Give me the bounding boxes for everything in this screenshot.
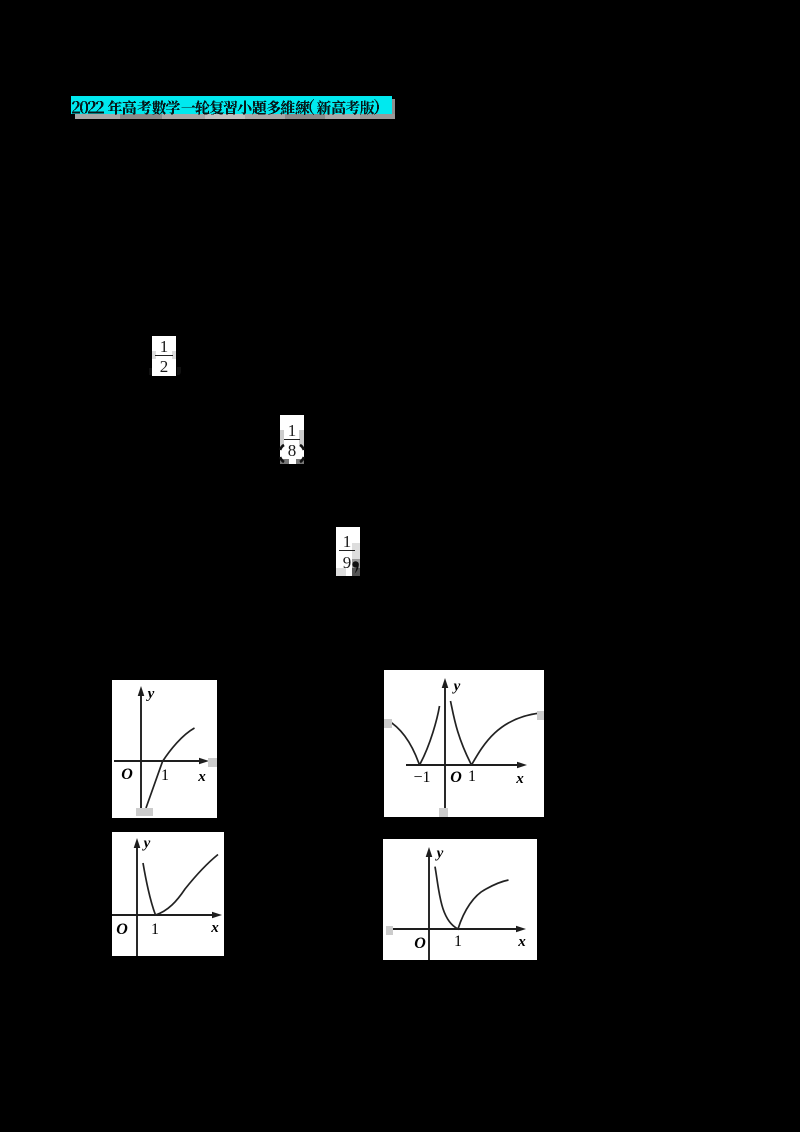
- svg-text:y: y: [146, 686, 155, 702]
- svg-text:1: 1: [454, 933, 462, 950]
- svg-text:y: y: [142, 836, 151, 852]
- svg-text:x: x: [517, 934, 526, 950]
- svg-text:−1: −1: [413, 769, 430, 786]
- svg-text:x: x: [197, 769, 206, 785]
- svg-text:O: O: [121, 766, 133, 783]
- svg-text:x: x: [515, 771, 524, 787]
- svg-text:O: O: [116, 921, 128, 938]
- svg-text:1: 1: [161, 767, 169, 784]
- svg-text:O: O: [414, 935, 426, 952]
- svg-text:1: 1: [468, 768, 476, 785]
- svg-text:x: x: [210, 920, 219, 936]
- svg-text:y: y: [435, 846, 444, 862]
- svg-text:y: y: [452, 679, 461, 695]
- svg-text:O: O: [450, 769, 462, 786]
- svg-text:1: 1: [151, 921, 159, 938]
